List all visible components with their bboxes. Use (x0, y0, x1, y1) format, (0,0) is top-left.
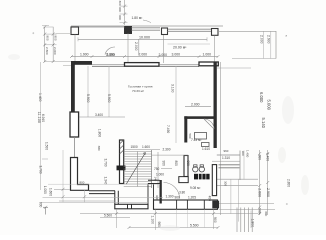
svg-text:900: 900 (175, 196, 181, 200)
terrace right extension line (218, 30, 276, 32)
svg-text:380: 380 (97, 146, 101, 151)
svg-text:2.000: 2.000 (260, 35, 264, 44)
svg-text:10.000: 10.000 (139, 35, 150, 39)
svg-text:2.800: 2.800 (287, 179, 291, 187)
svg-text:3.100: 3.100 (171, 84, 175, 93)
stairs left wall (120, 140, 124, 184)
wall segment B (125, 63, 160, 67)
svg-text:5.500: 5.500 (190, 224, 199, 228)
svg-text:3.700: 3.700 (104, 159, 108, 167)
svg-text:1.400: 1.400 (246, 150, 250, 158)
column C4 (212, 29, 219, 36)
faint scan smudges (8, 54, 309, 231)
right wall lower hollow (212, 165, 216, 196)
wc dark cabinet row (194, 174, 198, 180)
svg-text:300: 300 (223, 181, 227, 186)
svg-text:900: 900 (118, 15, 122, 20)
porch ext vertical lines (243, 151, 245, 180)
svg-text:300: 300 (118, 1, 122, 6)
svg-text:300: 300 (241, 151, 245, 156)
tick marks dim row (70, 55, 220, 58)
svg-text:6.940: 6.940 (41, 114, 45, 122)
svg-text:5.900: 5.900 (107, 94, 111, 103)
svg-text:500: 500 (188, 134, 192, 139)
svg-text:1.310: 1.310 (222, 156, 230, 160)
terrace inner line (168, 43, 211, 45)
chain line x251 (250, 211, 252, 229)
svg-text:750: 750 (154, 167, 160, 171)
window 1 top (92, 64, 125, 66)
svg-text:1.900: 1.900 (80, 53, 89, 57)
terrace rail line left (79, 26, 125, 28)
svg-text:1.80 м²: 1.80 м² (132, 16, 144, 20)
svg-text:1.000: 1.000 (203, 53, 212, 57)
wc wall foot (179, 177, 188, 183)
svg-text:1.100: 1.100 (150, 216, 154, 225)
svg-text:1.205: 1.205 (188, 195, 196, 199)
terrace rail double line right (168, 28, 212, 30)
svg-text:400: 400 (208, 196, 212, 202)
left dim chains (44, 27, 46, 62)
bottom-left wall double (89, 191, 115, 194)
svg-text:3.000: 3.000 (107, 53, 116, 57)
svg-text:6.000: 6.000 (259, 92, 264, 103)
outer right boundary line (220, 62, 222, 215)
room 9.08 top wall (148, 180, 160, 183)
right top dim line (217, 67, 251, 69)
svg-text:2.500: 2.500 (45, 47, 49, 55)
svg-text:800: 800 (80, 181, 85, 185)
right extension vertical (275, 31, 277, 59)
svg-text:3.400: 3.400 (95, 113, 103, 117)
dim line 1.310 (212, 160, 240, 162)
interior dashed vertical 2 (108, 66, 110, 117)
left pier 2 L-shape (71, 158, 89, 191)
door arc top left (105, 47, 115, 55)
svg-text:900: 900 (213, 217, 217, 223)
svg-text:960: 960 (224, 149, 229, 153)
svg-text:900: 900 (162, 161, 166, 167)
column C1 (71, 27, 79, 35)
left wall solid (71, 61, 75, 112)
column C3 (162, 28, 168, 35)
room 9.08 door arc (164, 183, 180, 199)
column C2 (125, 27, 132, 34)
svg-text:5.900: 5.900 (86, 94, 90, 103)
svg-text:960: 960 (157, 222, 161, 228)
svg-text:900: 900 (186, 161, 190, 167)
svg-text:5.140: 5.140 (261, 118, 266, 129)
vertical dim 2.000 near x=138 (138, 40, 140, 56)
svg-text:900: 900 (53, 35, 57, 40)
left margin rotated dims (40, 62, 42, 190)
svg-text:9.08 м²: 9.08 м² (190, 186, 200, 190)
svg-text:7.490: 7.490 (166, 125, 170, 133)
svg-text:20.00 м²: 20.00 м² (173, 46, 187, 50)
svg-text:2.000: 2.000 (53, 47, 57, 55)
right extension dim line (232, 58, 276, 60)
svg-text:3.80: 3.80 (179, 190, 185, 194)
newel block (117, 166, 126, 171)
svg-text:900: 900 (155, 195, 159, 200)
dim 10.000 line (78, 38, 207, 40)
svg-text:2.900: 2.900 (267, 35, 271, 44)
left pier 1 (70, 112, 79, 137)
left opening line (74, 137, 76, 157)
svg-text:1.600: 1.600 (49, 188, 53, 196)
svg-text:1.600: 1.600 (142, 145, 150, 149)
left margin dims bottom (54, 188, 70, 190)
plus artifact bottom right (286, 203, 288, 205)
stair right stringer (151, 150, 153, 188)
svg-text:1.400: 1.400 (38, 93, 42, 102)
svg-text:2.000: 2.000 (191, 103, 200, 107)
wall segment C (199, 62, 218, 66)
top dim chain at x=119.5 (124, 0, 126, 25)
stairs wall hatch (120, 140, 124, 154)
bottom-right porch (217, 154, 240, 156)
svg-text:900: 900 (38, 202, 42, 208)
bottom dim lines (100, 217, 130, 219)
svg-text:70.33 м²: 70.33 м² (132, 89, 144, 93)
stair flight divider (137, 152, 139, 187)
svg-text:1.000: 1.000 (43, 186, 47, 194)
stair treads (124, 152, 152, 187)
kitchen counter line (79, 116, 125, 118)
room 9.08 left wall (160, 180, 162, 204)
slash ticks (43, 5, 269, 229)
stair arrow head (143, 153, 146, 156)
right dim chains (259, 150, 261, 215)
bottom wall band A (115, 204, 148, 209)
bath wall vertical (184, 116, 187, 142)
hall dim line (152, 154, 188, 156)
main top wall segment A (71, 61, 92, 65)
svg-text:300: 300 (258, 155, 262, 161)
column drop lines (74, 35, 76, 62)
terrace top edge line (71, 25, 223, 27)
svg-text:2.900: 2.900 (266, 188, 270, 197)
svg-text:1.000: 1.000 (156, 172, 164, 176)
svg-text:2.000: 2.000 (134, 42, 138, 51)
svg-text:900: 900 (45, 35, 49, 40)
svg-text:1500: 1500 (131, 145, 138, 149)
bottom wall band B (154, 200, 218, 209)
window 2 top (159, 64, 199, 66)
svg-text:Гостиная + кухня: Гостиная + кухня (128, 84, 153, 88)
interior dashed vertical 3 (175, 66, 177, 143)
svg-text:1.500: 1.500 (45, 142, 49, 150)
leader line (143, 20, 151, 23)
right wall upper (214, 62, 217, 148)
svg-text:5.000: 5.000 (267, 100, 272, 111)
bath door arc (204, 119, 214, 129)
right wall corner dark (212, 201, 219, 209)
bath top dim 2.000 (185, 106, 211, 108)
svg-text:1.610: 1.610 (202, 147, 210, 151)
terrace rail double line mid (132, 27, 161, 29)
bottom right rail lines (237, 208, 252, 233)
svg-text:800: 800 (174, 161, 178, 167)
svg-text:1.300: 1.300 (166, 195, 174, 199)
svg-text:1.340: 1.340 (104, 177, 108, 185)
sill tick left (63, 65, 71, 67)
svg-text:140: 140 (154, 177, 158, 182)
bath fixture (195, 133, 207, 140)
shaft walls (147, 184, 149, 209)
svg-text:2.000: 2.000 (139, 53, 148, 57)
terrace right chain verticals (262, 32, 264, 59)
svg-text:3.700: 3.700 (39, 166, 43, 174)
interior dashed vertical 1 (87, 66, 89, 117)
svg-text:3.000: 3.000 (172, 53, 181, 57)
svg-text:900: 900 (118, 7, 122, 12)
bath wall horizontal (184, 116, 213, 119)
porch floor lines (217, 178, 258, 180)
left margin tick (42, 158, 48, 160)
porch bottom extension lines (219, 203, 274, 205)
svg-text:2.600: 2.600 (258, 188, 262, 197)
svg-text:5.500: 5.500 (104, 214, 112, 218)
svg-text:1.800: 1.800 (97, 129, 101, 137)
svg-text:2.000: 2.000 (159, 53, 168, 57)
stair up diagonal (126, 153, 146, 185)
wc fixtures (193, 167, 198, 172)
wc lower wall (184, 156, 188, 177)
svg-text:300: 300 (264, 211, 268, 216)
svg-text:2.300: 2.300 (163, 148, 171, 152)
dim row above wall (71, 56, 218, 58)
